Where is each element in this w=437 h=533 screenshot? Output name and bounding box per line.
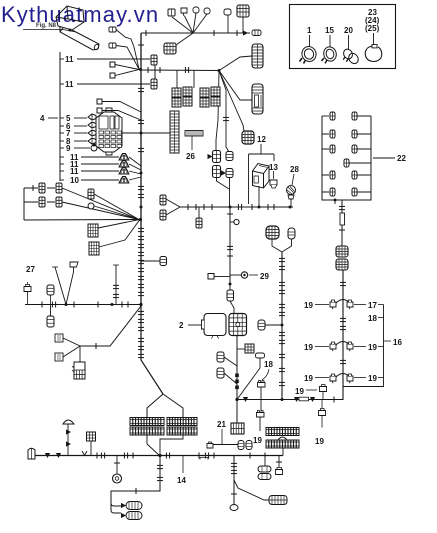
wire loop row2 to fan xyxy=(62,202,139,220)
stub pill below H2 fan xyxy=(196,207,202,228)
pill stack below H3 xyxy=(47,285,54,305)
bracket 12 xyxy=(249,144,275,204)
wire fan to strip1 xyxy=(219,56,252,71)
junction fan right xyxy=(218,69,221,72)
wide connector dome xyxy=(278,437,287,440)
terminal square B xyxy=(97,108,141,120)
round grid connector mid xyxy=(266,226,279,239)
junction 259 xyxy=(258,206,261,209)
trunk207 ticks xyxy=(188,204,274,210)
connector block left row2 xyxy=(130,427,164,435)
right trunk ticks xyxy=(340,282,346,364)
grid connector chain2 xyxy=(336,259,348,270)
leader 19 pairC xyxy=(315,377,329,379)
loop pill r2c2 xyxy=(56,197,62,207)
leader 18 mid xyxy=(262,369,269,380)
legend clamp 23 xyxy=(365,45,381,62)
wire grid2 to fan xyxy=(99,220,140,247)
pill mid a xyxy=(208,151,221,163)
x230 ticks xyxy=(227,214,233,256)
tick 19B to bracket xyxy=(378,346,384,348)
terminal square D xyxy=(110,70,139,79)
grid connector below loop 1 xyxy=(88,224,98,237)
pill F left xyxy=(217,368,224,378)
svg-text:4: 4 xyxy=(40,114,45,123)
fan box below xyxy=(72,346,85,379)
label 11 row5 xyxy=(60,167,119,176)
wire relay to trunk207 xyxy=(258,186,260,207)
leader 19 pairB xyxy=(315,346,329,348)
connector 28 xyxy=(287,186,296,208)
top connector a xyxy=(168,9,175,16)
leader 19 pairB right xyxy=(354,346,366,348)
relay 13 box xyxy=(253,164,270,189)
label 9 xyxy=(60,144,90,153)
svg-text:18: 18 xyxy=(264,360,273,369)
svg-text:(25): (25) xyxy=(365,24,380,33)
tall strip connector 1 xyxy=(252,44,263,68)
drop clamp below H4 xyxy=(276,456,283,475)
flag 18 xyxy=(237,353,265,400)
x237 junction dots xyxy=(235,374,239,390)
wire fan to d xyxy=(193,14,207,33)
label 11 row4 xyxy=(60,160,119,169)
svg-text:19: 19 xyxy=(295,387,304,396)
loop pill r1c1 xyxy=(39,183,45,193)
svg-text:12: 12 xyxy=(257,135,266,144)
clip 9 xyxy=(91,144,97,152)
wide connector row1 xyxy=(266,428,299,436)
top connector c xyxy=(193,7,199,13)
svg-text:20: 20 xyxy=(344,26,353,35)
label 10 xyxy=(60,176,119,185)
pill next to round connector xyxy=(288,228,295,239)
clip 7 xyxy=(88,130,96,136)
top connector b xyxy=(181,8,187,16)
legend leader 23 xyxy=(373,33,375,45)
ladder rows connectors xyxy=(330,112,357,196)
junction H3 x112 xyxy=(111,303,114,306)
ladder 22 rails xyxy=(322,116,371,200)
grid group left stub xyxy=(177,70,194,88)
drop ticks xyxy=(136,465,163,494)
label 14 xyxy=(177,456,186,486)
clamp 19 chain lower xyxy=(257,411,265,418)
connector block right row1 xyxy=(167,418,197,426)
x282 ticks xyxy=(279,258,285,386)
svg-text:16: 16 xyxy=(393,338,402,347)
lever clip upper xyxy=(109,27,116,32)
wire lever upper to fan xyxy=(116,30,139,70)
drop ring x117 xyxy=(113,456,122,484)
wire pill2 to x282 xyxy=(265,324,282,326)
top stub pill f xyxy=(224,9,231,33)
wire mid pill d to fan xyxy=(94,206,139,220)
tick 18 to bracket xyxy=(378,317,384,319)
bracket 16 xyxy=(343,305,384,387)
inline fuse rect xyxy=(340,213,345,225)
leader 19 H5 xyxy=(306,389,317,391)
wire fan to strip2 xyxy=(219,71,252,101)
lever handle (part 3 drawing) xyxy=(56,6,100,50)
pill right of 2 xyxy=(258,320,265,330)
clip 6 xyxy=(88,122,96,128)
label 6 xyxy=(60,122,87,131)
wire trunk x282 xyxy=(281,252,283,400)
grid connector e xyxy=(164,43,176,54)
wire fan to a xyxy=(172,17,193,33)
stub dome x68 xyxy=(63,420,74,456)
wire wideconn to H4 xyxy=(282,448,284,456)
label 26 text xyxy=(186,136,195,161)
leader 17 xyxy=(354,304,366,306)
wire V left leg xyxy=(52,267,66,305)
mid pill c xyxy=(88,189,94,199)
svg-text:13: 13 xyxy=(269,163,278,172)
wire lever lower to fan xyxy=(116,46,139,70)
stub pill right of trunk 261 xyxy=(141,257,167,266)
legend box frame xyxy=(290,5,396,69)
wire pillF to x237 xyxy=(224,373,237,384)
clip 11c xyxy=(119,168,129,175)
svg-text:11: 11 xyxy=(70,167,79,176)
wire right trunk xyxy=(342,270,344,400)
wire 11a to trunk xyxy=(129,157,141,166)
stub circle right xyxy=(230,219,239,224)
label 11 row3 xyxy=(60,153,119,162)
legend clamp 15 xyxy=(322,45,338,63)
svg-text:11: 11 xyxy=(65,80,74,89)
branch to left fan xyxy=(80,306,141,346)
wire below boot2 xyxy=(236,336,238,400)
pill mid b xyxy=(226,152,233,161)
wire ladder down xyxy=(341,200,343,247)
H3 ticks xyxy=(42,302,128,308)
wire x237 into block21 xyxy=(236,400,238,424)
wire pillE to x237 xyxy=(224,357,237,366)
wire to ring 29 xyxy=(230,274,241,276)
wire mid pill c to fan xyxy=(94,194,139,220)
wire fan to b xyxy=(185,16,194,33)
grid connector chain1 xyxy=(336,246,348,257)
wire x230 to boot2 xyxy=(230,284,234,314)
clip 8 xyxy=(88,138,96,144)
legend leader 20 xyxy=(348,35,350,50)
ladder 22 row1 left xyxy=(322,115,329,117)
svg-text:28: 28 xyxy=(290,165,299,174)
svg-text:27: 27 xyxy=(26,265,35,274)
clamp pair B left xyxy=(330,342,336,351)
H1 ticks xyxy=(146,30,248,36)
clamp pair A left xyxy=(330,300,336,309)
strip 26 vertical xyxy=(170,111,179,153)
label 5 xyxy=(60,114,87,123)
left bracket spine xyxy=(59,52,61,181)
wire pills mid join xyxy=(217,178,230,208)
leader 21 xyxy=(221,429,223,444)
clip 11a xyxy=(119,154,129,161)
H5 splice rect xyxy=(299,397,309,401)
junction trunk fuse line xyxy=(140,132,143,135)
hatch pill bottom2 xyxy=(121,512,142,520)
svg-text:14: 14 xyxy=(177,476,186,485)
clamp pair C right xyxy=(347,374,353,383)
wire 21row xyxy=(213,444,238,446)
pill mid c xyxy=(213,166,221,178)
stub grid x91 xyxy=(87,432,96,456)
wide connector row2 xyxy=(266,440,299,448)
V pill upper xyxy=(160,195,166,205)
label 8 xyxy=(60,137,87,146)
wire H3 xyxy=(25,304,141,306)
H1 end pill xyxy=(252,30,261,36)
leader 22 xyxy=(373,157,395,159)
fork to blocks xyxy=(147,394,183,417)
svg-text:26: 26 xyxy=(186,152,195,161)
label 11 row2 xyxy=(60,80,74,89)
caption underline xyxy=(23,30,76,33)
loop pill r1c2 xyxy=(56,183,62,193)
wire H4 xyxy=(35,455,283,457)
flag 27 group xyxy=(66,262,78,305)
fuse box connector xyxy=(96,108,122,155)
drop x234 below H4 xyxy=(230,456,238,511)
clamp pair C left xyxy=(330,374,336,383)
clamp small left21 xyxy=(207,442,213,448)
ladder rung stubs xyxy=(322,116,371,192)
svg-text:19: 19 xyxy=(368,343,377,352)
svg-text:11: 11 xyxy=(65,55,74,64)
wire clamp chain down xyxy=(260,387,262,410)
wire trunk207 xyxy=(180,206,293,208)
junction ladder bottom xyxy=(334,199,337,205)
legend clamp 20 xyxy=(342,48,360,66)
clip 11b xyxy=(119,161,129,168)
junction x230 bottom xyxy=(229,283,232,286)
wire 11b to trunk xyxy=(129,164,141,170)
tick 16 xyxy=(384,340,392,342)
node dot on lever xyxy=(69,29,72,32)
clamp pair C arc xyxy=(336,374,350,378)
wire 10 to trunk xyxy=(129,177,141,180)
wire 11 row2 xyxy=(77,83,150,85)
wire clip upper to fan xyxy=(63,338,80,346)
wire fan down right pill xyxy=(219,71,229,153)
wire loop row1 to fan xyxy=(62,188,139,220)
trunk tick marks lower xyxy=(138,228,144,296)
legend clamp 1 xyxy=(300,45,319,64)
H2 ticks xyxy=(148,67,189,73)
label 7 xyxy=(60,129,87,138)
svg-text:10: 10 xyxy=(70,176,79,185)
pill drop below H3 xyxy=(47,305,54,328)
wire grid1 to fan xyxy=(98,220,140,229)
H5 ticks xyxy=(243,397,334,403)
terminal square A xyxy=(97,99,141,112)
wire fan down left pill xyxy=(216,71,219,152)
wire fan to c xyxy=(193,13,196,33)
hatch pill bottom1 xyxy=(121,502,142,510)
hatch pill right xyxy=(269,496,287,505)
legend leader 1 xyxy=(309,35,311,47)
grid group left xyxy=(172,87,192,107)
svg-text:22: 22 xyxy=(397,154,406,163)
wire clip lower to fan xyxy=(63,346,80,357)
top grid connector g xyxy=(237,5,249,33)
junction H3 V xyxy=(65,303,68,306)
wire clamp lower down xyxy=(259,417,261,431)
connector block right row2 xyxy=(167,427,197,435)
clamp pair B right xyxy=(347,342,353,351)
grid connector 12area xyxy=(242,131,254,144)
loop pill r2c1 xyxy=(39,197,45,207)
leader 19 pairA xyxy=(315,304,329,306)
clamp pair B arc xyxy=(336,342,350,346)
junction 230 xyxy=(229,206,232,209)
pill mid d xyxy=(221,169,233,178)
grid square stub right xyxy=(237,344,254,353)
clip 10 xyxy=(119,177,129,184)
clip 13 xyxy=(270,180,277,188)
terminal square C xyxy=(110,62,139,70)
fan clip lower left xyxy=(55,353,63,361)
H4 ticks left xyxy=(45,451,265,459)
inline pill x230 xyxy=(227,290,234,301)
svg-text:9: 9 xyxy=(66,144,71,153)
junction H5 x282 xyxy=(281,398,284,401)
svg-text:Fig. N8: Fig. N8 xyxy=(36,23,57,29)
svg-text:19: 19 xyxy=(304,301,313,310)
wire V pills to trunk207 xyxy=(166,199,180,215)
clamp 19 above H5 xyxy=(320,385,327,400)
junction H3 trunk xyxy=(139,303,142,306)
label 4 dash xyxy=(48,117,58,119)
leader 19 pairC right xyxy=(354,377,366,379)
wire 11 row1 xyxy=(77,58,150,60)
connector pair upper xyxy=(151,55,157,89)
clamp pair A arc xyxy=(336,300,350,304)
wire fan to grid12 xyxy=(219,71,244,132)
clip 5 xyxy=(88,114,96,120)
leader 2 xyxy=(188,324,202,326)
grid connector below loop 2 xyxy=(89,242,99,255)
svg-text:Kythuatmay.vn: Kythuatmay.vn xyxy=(1,2,159,27)
trunk tick marks upper xyxy=(138,45,144,198)
junction H4 x160 xyxy=(158,454,161,457)
svg-text:17: 17 xyxy=(368,301,377,310)
leader 13 xyxy=(273,171,275,179)
svg-text:29: 29 xyxy=(260,272,269,281)
svg-text:19: 19 xyxy=(304,374,313,383)
clamp 27 xyxy=(24,282,31,304)
main trunk vertical xyxy=(140,33,142,306)
wire blocks to H4 left xyxy=(147,435,160,456)
pill pair 21row a xyxy=(238,441,244,450)
svg-text:21: 21 xyxy=(217,420,226,429)
svg-text:19: 19 xyxy=(253,436,262,445)
diagonal to hatch pill right xyxy=(234,480,269,500)
boot 2 xyxy=(202,314,227,339)
strip 26 horizontal xyxy=(185,131,203,137)
wire H5 xyxy=(237,399,343,401)
tick branch xyxy=(95,343,97,349)
drop ovals below H4 xyxy=(258,456,271,480)
svg-text:18: 18 xyxy=(368,314,377,323)
junction fan left trunk xyxy=(139,68,142,71)
H4 cap connector xyxy=(28,448,35,459)
wire blocks to H4 right xyxy=(160,435,183,456)
ring terminal 29 xyxy=(241,272,247,278)
loop tick xyxy=(32,185,34,191)
clamp 19 below H5 xyxy=(319,400,326,428)
wires connectors to x282 xyxy=(272,239,292,252)
clamp pair A right xyxy=(347,300,353,309)
wire fan to grid connector e xyxy=(176,33,193,45)
lever clip lower xyxy=(109,43,116,48)
svg-text:15: 15 xyxy=(325,26,334,35)
left loop wire xyxy=(24,188,139,220)
wire H2 xyxy=(141,69,219,72)
block 21 xyxy=(231,423,244,434)
svg-text:1: 1 xyxy=(307,26,312,35)
junction fan loop xyxy=(139,218,142,221)
junction trunk 207 xyxy=(140,206,143,209)
terminal square 29row xyxy=(208,274,230,280)
tick 19C to bracket xyxy=(378,377,384,379)
svg-text:19: 19 xyxy=(315,437,324,446)
wire branch x230 xyxy=(229,207,231,284)
pill pair 21row b xyxy=(246,441,252,450)
svg-text:19: 19 xyxy=(368,374,377,383)
label 11 row1 xyxy=(60,55,74,64)
svg-text:19: 19 xyxy=(304,343,313,352)
wire H1 top trunk xyxy=(141,32,250,34)
stub x116 xyxy=(113,265,119,305)
leader 28 xyxy=(292,174,294,185)
V pill lower xyxy=(160,210,166,220)
top connector d xyxy=(204,8,210,14)
tick 17 to bracket xyxy=(378,304,384,306)
ticks ladder down xyxy=(339,206,345,230)
clamp 18 chain xyxy=(258,381,266,388)
mid pill d xyxy=(88,203,94,209)
junction x237 H5 xyxy=(235,398,238,401)
grid group right xyxy=(200,87,220,107)
trunk lower ticks xyxy=(138,311,144,358)
fork lower xyxy=(111,503,121,513)
connector block left row1 xyxy=(130,418,164,426)
wire drop x160 xyxy=(111,456,160,507)
wire fusebox to strip26 xyxy=(122,132,170,134)
tall strip connector 2 xyxy=(252,84,263,114)
svg-text:2: 2 xyxy=(179,321,184,330)
trunk lower segment xyxy=(141,306,163,394)
junction x282 pill2 xyxy=(281,324,284,327)
legend leader 15 xyxy=(329,35,331,47)
tick on fan wire xyxy=(223,117,229,121)
fan clip upper left xyxy=(55,334,124,533)
junction 290 xyxy=(289,206,292,209)
splice under H4 xyxy=(200,458,208,460)
leader 29 xyxy=(249,274,258,276)
junction trunk 11-10 clips xyxy=(140,172,143,175)
grid connector 2 xyxy=(229,314,247,336)
pill E left xyxy=(217,352,224,362)
wire 11c to trunk xyxy=(129,171,141,174)
